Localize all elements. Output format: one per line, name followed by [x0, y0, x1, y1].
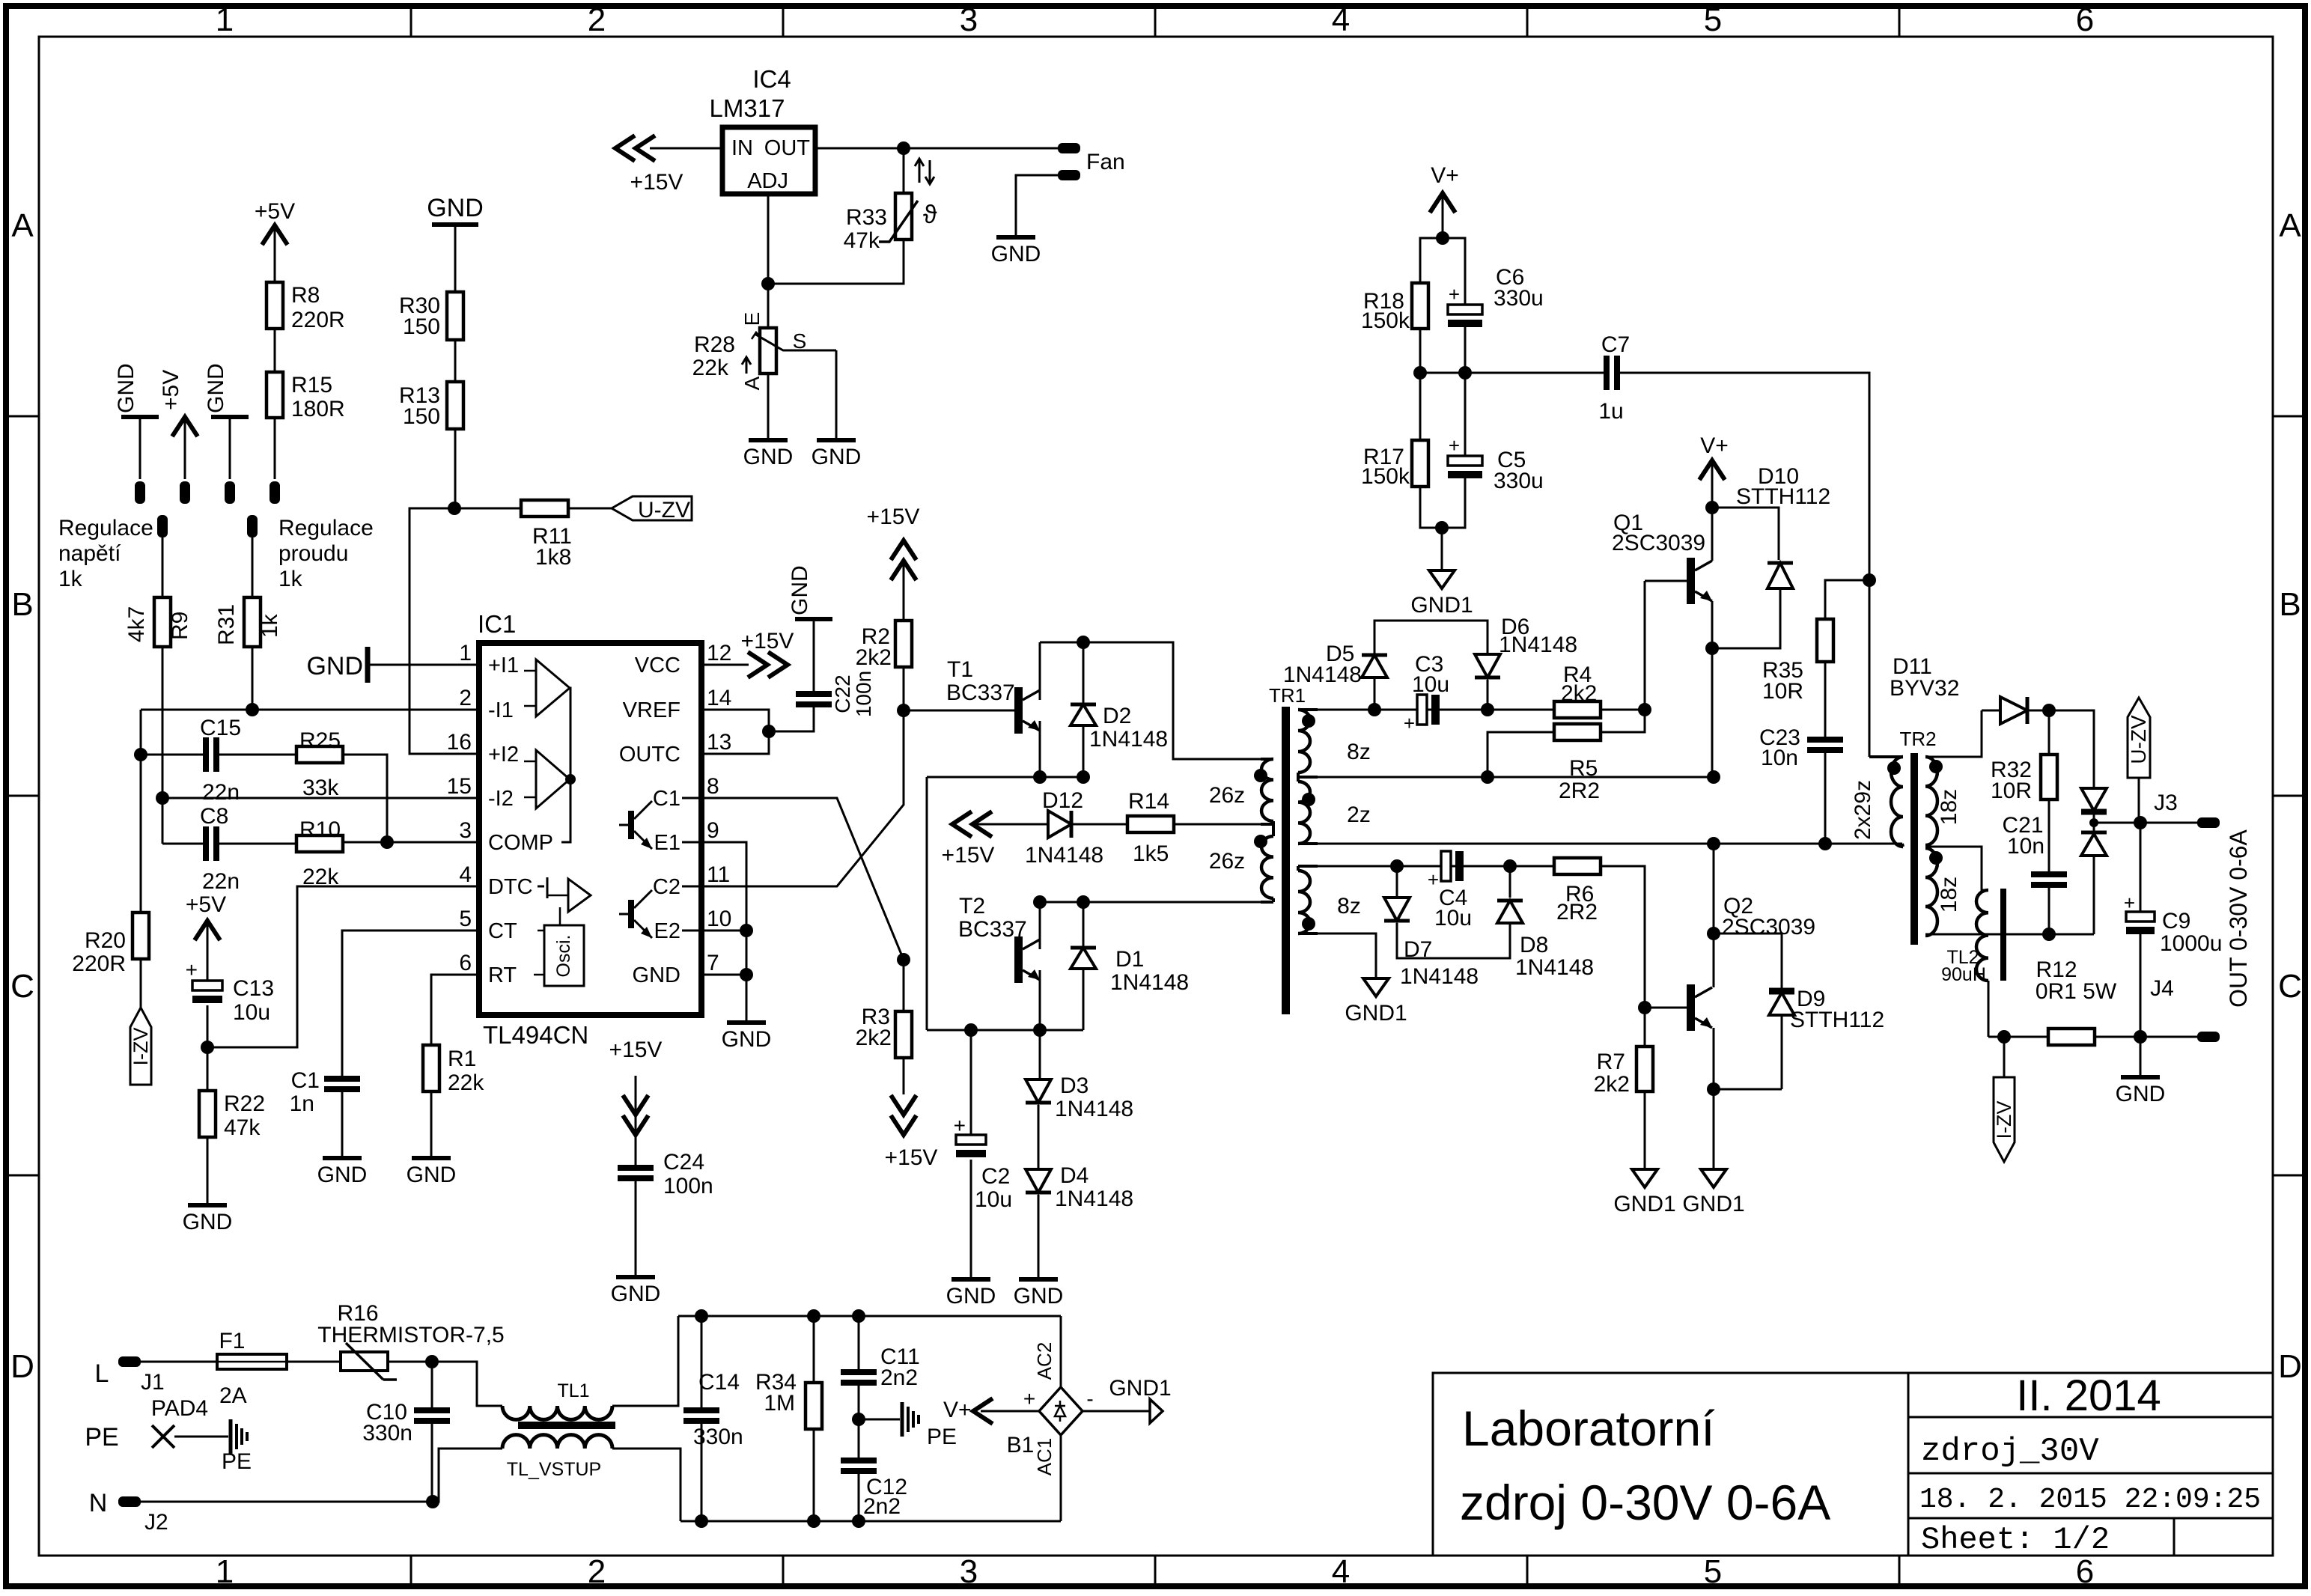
svg-text:Regulace: Regulace [278, 516, 374, 540]
svg-text:+: + [1023, 1387, 1035, 1410]
svg-text:J3: J3 [2154, 791, 2178, 815]
svg-text:+I2: +I2 [488, 743, 519, 767]
svg-text:1k: 1k [58, 567, 83, 591]
svg-text:9: 9 [707, 818, 719, 843]
svg-text:C13: C13 [233, 976, 274, 1001]
svg-text:C8: C8 [200, 804, 228, 829]
svg-text:3: 3 [960, 1553, 978, 1590]
svg-text:22n: 22n [202, 780, 240, 805]
svg-text:-I2: -I2 [488, 787, 514, 811]
svg-text:D1: D1 [1115, 947, 1144, 972]
svg-text:PE: PE [927, 1425, 957, 1449]
svg-text:330n: 330n [362, 1421, 412, 1446]
svg-text:2SC3039: 2SC3039 [1722, 915, 1815, 939]
svg-text:E: E [740, 312, 764, 326]
svg-text:IC1: IC1 [478, 610, 516, 638]
svg-text:AC1: AC1 [1033, 1438, 1056, 1476]
svg-text:1N4148: 1N4148 [1089, 727, 1168, 752]
svg-text:2k2: 2k2 [1561, 681, 1597, 706]
svg-text:V+: V+ [1431, 163, 1459, 188]
svg-text:BC337: BC337 [946, 680, 1015, 705]
svg-text:22k: 22k [692, 356, 729, 380]
svg-text:D4: D4 [1060, 1163, 1088, 1188]
svg-text:E2: E2 [654, 919, 680, 943]
svg-text:15: 15 [447, 774, 472, 799]
svg-text:C9: C9 [2162, 909, 2190, 933]
svg-text:+I1: +I1 [488, 654, 519, 677]
svg-text:D2: D2 [1103, 704, 1131, 728]
svg-text:4: 4 [1332, 1553, 1350, 1590]
svg-text:22n: 22n [202, 869, 240, 894]
svg-text:100n: 100n [852, 671, 875, 717]
svg-text:IC4: IC4 [752, 65, 791, 93]
svg-text:Regulace: Regulace [58, 516, 153, 540]
svg-text:10n: 10n [1761, 746, 1798, 770]
svg-text:GND: GND [204, 363, 228, 413]
svg-text:10R: 10R [1762, 679, 1803, 704]
svg-text:16: 16 [447, 730, 472, 755]
svg-text:R14: R14 [1128, 789, 1169, 814]
svg-text:I-ZV: I-ZV [130, 1028, 152, 1066]
svg-text:R28: R28 [694, 332, 735, 357]
svg-text:26z: 26z [1209, 783, 1245, 808]
svg-text:8z: 8z [1347, 740, 1371, 764]
svg-text:D: D [10, 1348, 34, 1385]
svg-text:C7: C7 [1601, 332, 1630, 357]
svg-text:GND: GND [946, 1284, 996, 1309]
svg-text:47k: 47k [844, 228, 880, 253]
svg-text:1n: 1n [290, 1091, 314, 1116]
svg-text:J4: J4 [2150, 976, 2174, 1001]
svg-text:2: 2 [588, 1553, 606, 1590]
svg-text:D3: D3 [1060, 1073, 1088, 1098]
svg-text:100n: 100n [663, 1174, 713, 1198]
svg-text:J1: J1 [141, 1370, 165, 1395]
svg-text:J2: J2 [144, 1510, 168, 1535]
svg-text:PE: PE [222, 1449, 252, 1474]
svg-text:C15: C15 [200, 716, 241, 740]
svg-text:R7: R7 [1597, 1050, 1625, 1074]
svg-text:2R2: 2R2 [1559, 779, 1600, 803]
svg-text:2: 2 [588, 1, 606, 38]
svg-text:1: 1 [459, 641, 472, 665]
svg-text:RT: RT [488, 963, 517, 987]
svg-text:B: B [11, 586, 33, 623]
svg-text:4: 4 [1332, 1, 1350, 38]
svg-text:2x29z: 2x29z [1851, 780, 1875, 840]
svg-text:CT: CT [488, 919, 517, 943]
svg-text:GND: GND [2116, 1082, 2166, 1106]
svg-text:BYV32: BYV32 [1890, 676, 1959, 701]
svg-text:V+: V+ [1700, 433, 1729, 458]
svg-text:330u: 330u [1494, 469, 1544, 493]
svg-text:+15V: +15V [885, 1145, 938, 1170]
svg-text:1N4148: 1N4148 [1055, 1097, 1133, 1121]
svg-text:47k: 47k [224, 1115, 261, 1140]
svg-text:V+: V+ [943, 1398, 972, 1422]
svg-text:3: 3 [459, 818, 472, 843]
svg-text:ADJ: ADJ [747, 169, 788, 193]
svg-text:zdroj 0-30V 0-6A: zdroj 0-30V 0-6A [1460, 1475, 1830, 1530]
svg-text:1k: 1k [258, 613, 282, 638]
svg-text:10R: 10R [1991, 779, 2032, 803]
svg-text:+: + [1404, 712, 1415, 734]
svg-text:1N4148: 1N4148 [1025, 843, 1103, 868]
svg-text:2SC3039: 2SC3039 [1612, 531, 1705, 555]
svg-text:1N4148: 1N4148 [1110, 970, 1189, 995]
svg-text:B1: B1 [1007, 1433, 1035, 1458]
svg-text:1k8: 1k8 [535, 545, 571, 570]
svg-text:0R1 5W: 0R1 5W [2036, 979, 2117, 1004]
svg-text:proudu: proudu [278, 541, 348, 566]
svg-text:+: + [186, 958, 198, 981]
svg-text:5: 5 [1704, 1553, 1722, 1590]
svg-text:+15V: +15V [630, 170, 683, 195]
svg-text:PE: PE [85, 1423, 118, 1452]
svg-text:GND1: GND1 [1410, 593, 1473, 618]
svg-text:D: D [2278, 1348, 2302, 1385]
svg-text:OUTC: OUTC [619, 743, 680, 767]
svg-text:R22: R22 [224, 1091, 265, 1116]
svg-text:VCC: VCC [635, 654, 680, 677]
svg-text:C1: C1 [291, 1068, 320, 1093]
svg-text:22k: 22k [448, 1070, 484, 1095]
svg-text:6: 6 [2076, 1553, 2094, 1590]
svg-text:-I1: -I1 [488, 698, 514, 722]
svg-text:1k: 1k [278, 567, 303, 591]
svg-text:10u: 10u [1412, 672, 1449, 697]
svg-text:2: 2 [459, 686, 472, 710]
svg-text:+: + [1449, 434, 1460, 457]
svg-text:PAD4: PAD4 [151, 1396, 208, 1421]
svg-text:6: 6 [2076, 1, 2094, 38]
svg-text:F1: F1 [219, 1329, 245, 1353]
svg-text:I-ZV: I-ZV [1993, 1101, 2015, 1139]
svg-text:+15V: +15V [609, 1038, 663, 1062]
svg-text:IN: IN [731, 136, 753, 160]
svg-text:GND: GND [812, 445, 862, 469]
svg-text:2k2: 2k2 [856, 1026, 892, 1050]
svg-text:C22: C22 [831, 674, 854, 713]
svg-text:1N4148: 1N4148 [1400, 964, 1479, 989]
svg-text:13: 13 [707, 730, 731, 755]
svg-text:1: 1 [216, 1, 234, 38]
svg-text:150: 150 [403, 404, 440, 429]
svg-text:1N4148: 1N4148 [1515, 955, 1594, 980]
svg-text:11: 11 [707, 862, 730, 887]
svg-text:2R2: 2R2 [1556, 900, 1598, 925]
svg-text:GND: GND [743, 445, 794, 469]
svg-text:R31: R31 [214, 604, 239, 645]
svg-text:TL_VSTUP: TL_VSTUP [507, 1459, 601, 1480]
svg-text:A: A [740, 376, 764, 390]
svg-text:10n: 10n [2007, 834, 2044, 859]
svg-text:S: S [793, 329, 807, 353]
svg-text:DTC: DTC [488, 875, 533, 899]
svg-text:18. 2. 2015 22:09:25: 18. 2. 2015 22:09:25 [1919, 1484, 2261, 1516]
svg-text:2z: 2z [1347, 802, 1371, 827]
svg-text:2k2: 2k2 [856, 645, 892, 670]
svg-text:150: 150 [403, 314, 440, 339]
svg-text:Fan: Fan [1086, 150, 1125, 174]
svg-text:1N4148: 1N4148 [1283, 663, 1362, 687]
svg-text:C: C [10, 968, 34, 1005]
svg-text:14: 14 [707, 686, 731, 710]
svg-text:10: 10 [707, 907, 731, 931]
svg-text:220R: 220R [291, 308, 345, 332]
svg-text:2k2: 2k2 [1594, 1072, 1630, 1097]
svg-text:2n2: 2n2 [880, 1365, 918, 1390]
svg-text:R9: R9 [168, 612, 192, 640]
svg-text:5: 5 [1704, 1, 1722, 38]
svg-text:C1: C1 [653, 787, 680, 811]
svg-text:GND1: GND1 [1613, 1192, 1675, 1216]
svg-text:GND: GND [306, 652, 363, 680]
svg-text:+5V: +5V [255, 199, 295, 224]
svg-text:3: 3 [960, 1, 978, 38]
svg-text:B: B [2279, 586, 2301, 623]
svg-text:napětí: napětí [58, 541, 121, 566]
svg-text:150k: 150k [1361, 464, 1410, 489]
svg-text:1: 1 [216, 1553, 234, 1590]
svg-text:STTH112: STTH112 [1790, 1008, 1884, 1032]
svg-text:T1: T1 [947, 657, 973, 682]
svg-text:GND1: GND1 [1682, 1192, 1744, 1216]
svg-text:TR2: TR2 [1899, 728, 1936, 750]
svg-text:R10: R10 [299, 817, 341, 842]
svg-text:U-ZV: U-ZV [2127, 715, 2150, 764]
svg-text:GND: GND [633, 963, 680, 987]
svg-text:R15: R15 [291, 373, 332, 398]
svg-text:6: 6 [459, 951, 472, 975]
svg-text:R8: R8 [291, 283, 320, 308]
svg-text:-: - [1086, 1387, 1093, 1410]
svg-text:1000u: 1000u [2160, 931, 2222, 956]
svg-text:GND: GND [114, 363, 138, 413]
svg-text:OUT 0-30V 0-6A: OUT 0-30V 0-6A [2225, 829, 2252, 1007]
svg-text:GND: GND [183, 1210, 233, 1234]
svg-text:90uH: 90uH [1941, 964, 1986, 985]
svg-text:Laboratorní: Laboratorní [1462, 1401, 1715, 1456]
svg-text:150k: 150k [1361, 308, 1410, 333]
svg-text:10u: 10u [975, 1187, 1012, 1212]
svg-text:GND: GND [1014, 1284, 1064, 1309]
svg-text:L: L [95, 1359, 109, 1388]
svg-text:+: + [1428, 868, 1439, 891]
svg-text:C2: C2 [653, 875, 680, 899]
svg-text:1N4148: 1N4148 [1499, 633, 1577, 657]
svg-text:TL1: TL1 [557, 1380, 589, 1401]
svg-text:330u: 330u [1494, 286, 1544, 311]
svg-text:10u: 10u [1434, 906, 1472, 931]
svg-text:R33: R33 [846, 205, 887, 230]
svg-text:R25: R25 [299, 728, 341, 753]
svg-text:+15V: +15V [942, 843, 995, 868]
svg-text:GND: GND [788, 565, 812, 615]
svg-text:+5V: +5V [159, 370, 183, 410]
svg-text:D12: D12 [1042, 788, 1083, 813]
svg-text:A: A [2279, 207, 2301, 244]
svg-text:R1: R1 [448, 1047, 476, 1071]
svg-text:7: 7 [707, 951, 719, 975]
svg-text:T2: T2 [959, 894, 985, 919]
svg-text:GND: GND [407, 1163, 457, 1187]
svg-text:1k5: 1k5 [1133, 841, 1169, 866]
svg-text:GND1: GND1 [1109, 1376, 1171, 1401]
svg-text:5: 5 [459, 907, 472, 931]
svg-text:N: N [89, 1489, 108, 1517]
svg-text:1u: 1u [1598, 399, 1623, 424]
svg-text:R20: R20 [85, 928, 126, 953]
svg-text:4: 4 [459, 862, 472, 887]
svg-text:C2: C2 [981, 1164, 1010, 1189]
svg-text:+15V: +15V [867, 505, 920, 529]
svg-text:VREF: VREF [623, 698, 680, 722]
svg-text:18z: 18z [1937, 789, 1961, 825]
svg-text:OUT: OUT [764, 136, 811, 160]
svg-text:LM317: LM317 [710, 94, 785, 122]
svg-text:TL494CN: TL494CN [483, 1021, 588, 1049]
svg-text:4k7: 4k7 [124, 606, 149, 642]
svg-text:33k: 33k [302, 776, 339, 800]
svg-text:2n2: 2n2 [863, 1494, 901, 1519]
svg-text:GND1: GND1 [1345, 1001, 1407, 1026]
svg-text:ϑ: ϑ [923, 201, 937, 229]
svg-text:A: A [11, 207, 34, 244]
svg-text:GND: GND [317, 1163, 368, 1187]
svg-text:C14: C14 [698, 1370, 740, 1395]
svg-text:26z: 26z [1209, 849, 1245, 874]
svg-text:GND: GND [427, 194, 484, 222]
svg-text:Sheet: 1/2: Sheet: 1/2 [1921, 1522, 2110, 1558]
svg-text:TR1: TR1 [1269, 684, 1306, 707]
svg-text:8: 8 [707, 774, 719, 799]
svg-text:2A: 2A [219, 1383, 247, 1408]
svg-text:1N4148: 1N4148 [1055, 1187, 1133, 1211]
svg-text:12: 12 [707, 641, 731, 665]
svg-text:II. 2014: II. 2014 [2016, 1371, 2161, 1420]
svg-text:+: + [1449, 283, 1460, 305]
svg-text:180R: 180R [291, 397, 345, 421]
svg-text:8z: 8z [1337, 894, 1361, 919]
svg-text:STTH112: STTH112 [1736, 484, 1830, 509]
svg-text:+15V: +15V [741, 629, 794, 654]
svg-text:U-ZV: U-ZV [638, 498, 690, 523]
svg-text:C: C [2278, 968, 2302, 1005]
svg-text:C24: C24 [663, 1150, 704, 1175]
svg-text:D8: D8 [1520, 933, 1548, 957]
svg-text:GND: GND [722, 1027, 772, 1052]
svg-text:GND: GND [611, 1282, 661, 1306]
svg-text:GND: GND [991, 242, 1041, 266]
svg-text:zdroj_30V: zdroj_30V [1921, 1433, 2099, 1470]
svg-text:10u: 10u [233, 1000, 270, 1025]
svg-text:1M: 1M [764, 1391, 795, 1416]
svg-text:18z: 18z [1937, 877, 1961, 913]
svg-text:E1: E1 [654, 831, 680, 855]
svg-text:Osci.: Osci. [553, 935, 574, 978]
svg-text:COMP: COMP [488, 831, 553, 855]
svg-text:+5V: +5V [186, 892, 226, 917]
svg-text:220R: 220R [72, 951, 126, 976]
svg-text:AC2: AC2 [1033, 1342, 1056, 1380]
